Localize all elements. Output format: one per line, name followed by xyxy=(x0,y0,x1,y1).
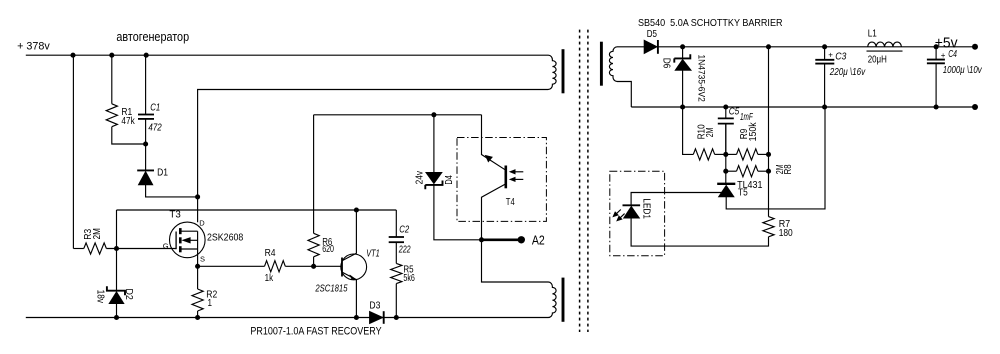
wire T4 collector xyxy=(482,115,506,170)
svg-text:D6: D6 xyxy=(660,58,671,69)
node top rail junction 2 xyxy=(109,53,114,58)
wire R9 left lead xyxy=(726,153,737,155)
svg-text:C5: C5 xyxy=(729,107,740,118)
node C3 top junction xyxy=(822,44,827,49)
wire R8 right lead xyxy=(758,170,769,172)
transistor VT1 base bar xyxy=(341,258,343,277)
svg-text:2SC1815: 2SC1815 xyxy=(315,284,348,295)
wire R7 top lead xyxy=(768,171,770,216)
capacitor C3 xyxy=(815,59,834,61)
wire R4 to base xyxy=(285,265,340,267)
svg-text:18v: 18v xyxy=(95,290,106,304)
resistor R1 xyxy=(106,104,117,127)
svg-text:SB540 5.0A SCHOTTKY BARRIER: SB540 5.0A SCHOTTKY BARRIER xyxy=(638,18,783,29)
svg-text:S: S xyxy=(200,254,205,263)
node R9 right junction xyxy=(766,152,771,157)
transistor T4 body bar xyxy=(504,166,507,189)
wire divider column B xyxy=(768,154,770,171)
node R5-bottom junction xyxy=(394,315,399,320)
transistor VT1 emitter xyxy=(342,272,356,279)
svg-text:R8: R8 xyxy=(783,164,794,174)
svg-text:D2: D2 xyxy=(123,289,134,301)
svg-text:1000μ \10v: 1000μ \10v xyxy=(943,65,983,76)
wire D2 column upper xyxy=(116,210,118,249)
wire emitter to feedback winding xyxy=(482,240,547,282)
node column B top junction xyxy=(766,44,771,49)
svg-text:+ 378v: + 378v xyxy=(17,40,50,52)
wire C1 top lead xyxy=(145,55,147,114)
diode D4 zener 24v xyxy=(426,172,443,184)
node R8 right junction xyxy=(766,169,771,174)
node gate junction xyxy=(114,246,119,251)
wire R7 bottom lead xyxy=(631,218,768,246)
svg-text:2M: 2M xyxy=(92,228,103,239)
node D6 bottom junction xyxy=(680,104,685,109)
capacitor C4 xyxy=(927,59,945,61)
svg-text:D3: D3 xyxy=(369,301,380,312)
wire R10 left lead xyxy=(683,107,694,154)
transistor T3 source link xyxy=(182,231,198,266)
diode LED1 emission arrow 1 xyxy=(615,210,621,216)
svg-text:D1: D1 xyxy=(157,168,168,179)
svg-text:620: 620 xyxy=(322,244,334,255)
wire D1 bottom lead xyxy=(146,185,198,197)
optocoupler LED1 box xyxy=(610,171,665,255)
svg-text:PR1007-1.0A FAST RECOVERY: PR1007-1.0A FAST RECOVERY xyxy=(250,325,382,337)
resistor R8 xyxy=(737,166,758,177)
svg-text:C3: C3 xyxy=(835,52,846,63)
shunt regulator TL431 T5 xyxy=(717,183,735,185)
svg-text:T4: T4 xyxy=(506,197,515,208)
isolation barrier dashed line 2 xyxy=(587,30,589,332)
resistor R9 xyxy=(737,149,758,160)
wire C4 top lead xyxy=(935,47,937,60)
svg-text:180: 180 xyxy=(779,228,793,239)
svg-text:G: G xyxy=(163,241,169,250)
wire bottom rail xyxy=(26,317,546,319)
wire R2 top lead xyxy=(197,266,199,289)
svg-text:24v: 24v xyxy=(414,170,425,184)
svg-text:D4: D4 xyxy=(444,175,455,185)
wire R6 bottom lead xyxy=(313,257,315,267)
transformer feedback winding xyxy=(546,282,556,318)
svg-text:47k: 47k xyxy=(121,116,135,127)
svg-text:150k: 150k xyxy=(748,122,759,142)
wire source to R4 xyxy=(198,265,265,267)
wire R1 top lead xyxy=(111,55,113,104)
node R1-C1 junction xyxy=(143,141,148,146)
svg-text:D: D xyxy=(199,218,205,227)
wire gate xyxy=(106,248,176,250)
wire D4 bottom lead xyxy=(434,185,482,240)
diode D5 xyxy=(644,40,657,54)
node D6 top junction xyxy=(680,44,685,49)
capacitor C5 xyxy=(718,117,734,119)
wire C1 bottom lead xyxy=(145,119,147,144)
diode LED1 emission arrow 2 xyxy=(619,214,625,220)
node top rail junction 3 xyxy=(144,53,149,58)
wire bottom 0v rail xyxy=(631,106,975,108)
wire secondary top to D5 xyxy=(620,46,644,48)
transistor VT1 circle xyxy=(341,254,367,280)
wire C5 bottom lead xyxy=(725,124,727,155)
resistor R4 xyxy=(265,261,286,272)
svg-text:A2: A2 xyxy=(532,233,545,247)
wire D1 top lead xyxy=(145,144,147,170)
svg-text:D5: D5 xyxy=(647,29,657,40)
node VT1 collector junction xyxy=(354,207,359,212)
transistor T3 drain link xyxy=(182,230,198,232)
svg-text:L1: L1 xyxy=(868,28,877,39)
wire R5 bottom lead xyxy=(395,284,397,318)
diode D1 xyxy=(137,169,154,171)
wire left rail to R3 xyxy=(72,55,74,248)
wire R1 bottom lead xyxy=(112,127,146,144)
diode LED1 xyxy=(623,204,641,206)
wire D6 top lead xyxy=(682,47,684,59)
wire divider column xyxy=(725,124,727,184)
resistor R2 xyxy=(192,289,203,311)
wire D2 bottom lead xyxy=(116,304,118,318)
transformer core bar right xyxy=(600,42,603,86)
svg-text:222: 222 xyxy=(398,245,411,256)
wire opto feed y115 xyxy=(314,114,482,116)
node divider junction A xyxy=(723,152,728,157)
wire C2-R5 link xyxy=(395,242,397,263)
svg-text:1N4735-6V2: 1N4735-6V2 xyxy=(696,55,707,102)
transistor T3 body circle xyxy=(170,222,206,258)
node top rail junction 1 xyxy=(70,53,75,58)
wire C3 top lead xyxy=(824,47,826,60)
svg-text:220μ \16v: 220μ \16v xyxy=(829,67,866,78)
node T4 emitter junction xyxy=(479,237,484,242)
wire R8 left lead xyxy=(726,170,737,172)
capacitor C2 xyxy=(389,236,404,238)
resistor R3 xyxy=(84,243,107,254)
node A2 terminal xyxy=(518,236,525,243)
wire VT1 collector xyxy=(342,210,356,261)
svg-text:+: + xyxy=(828,51,833,60)
transistor T3 body diode arrow xyxy=(184,239,198,241)
inductor L1 bar xyxy=(867,50,903,52)
svg-text:R4: R4 xyxy=(265,248,276,259)
wire +378v top rail xyxy=(26,54,546,56)
wire TL431 anode xyxy=(726,107,825,209)
wire C4 bottom lead xyxy=(935,63,937,107)
wire R10 right lead xyxy=(715,153,726,155)
isolation barrier dashed line 1 xyxy=(579,30,581,332)
wire top 5v rail xyxy=(658,46,975,48)
svg-text:T5: T5 xyxy=(738,187,748,198)
node VT1 emitter junction xyxy=(354,315,359,320)
node +5v terminal xyxy=(972,44,978,50)
transformer secondary winding xyxy=(609,47,631,107)
node R2-bottom junction xyxy=(195,315,200,320)
resistor R7 xyxy=(763,217,774,237)
svg-text:C2: C2 xyxy=(399,224,409,235)
svg-text:VT1: VT1 xyxy=(366,249,380,260)
svg-text:1: 1 xyxy=(208,298,213,309)
diode D3 xyxy=(369,311,383,324)
svg-text:472: 472 xyxy=(148,123,162,134)
wire D6 bottom lead xyxy=(682,70,684,107)
transformer core bar bottom-left xyxy=(562,278,565,322)
wire VT1 emitter lead xyxy=(355,280,357,318)
svg-text:1k: 1k xyxy=(265,273,274,284)
node R6-base junction xyxy=(311,264,316,269)
svg-text:2M: 2M xyxy=(705,127,716,137)
transistor T4 light arrow 1 xyxy=(512,171,524,173)
wire drain rail xyxy=(198,90,546,223)
node R8 left junction xyxy=(723,169,728,174)
transistor T3 gate bar xyxy=(175,232,177,250)
svg-text:T3: T3 xyxy=(169,209,181,220)
inductor L1 xyxy=(868,42,902,47)
svg-text:2SK2608: 2SK2608 xyxy=(207,233,244,244)
svg-text:1mF: 1mF xyxy=(740,112,753,123)
capacitor C1 xyxy=(138,114,154,116)
wire R3 left lead xyxy=(73,248,83,250)
wire D4 top lead xyxy=(433,115,435,173)
transistor T4 light arrow 2 xyxy=(512,178,524,180)
svg-text:20μH: 20μH xyxy=(868,55,887,66)
wire C5 top lead xyxy=(725,107,727,118)
node C5 top junction xyxy=(723,104,728,109)
node D2-bottom junction xyxy=(114,315,119,320)
svg-text:C1: C1 xyxy=(150,103,160,114)
diode D2 zener 18v xyxy=(107,286,125,295)
wire D2 top lead xyxy=(116,249,118,291)
node C4 bottom junction xyxy=(934,104,939,109)
wire R6 top lead xyxy=(313,115,315,234)
wire R2 bottom lead xyxy=(197,311,199,318)
resistor R6 xyxy=(308,233,319,256)
wire feedback y210 xyxy=(117,209,397,211)
wire C3 bottom lead xyxy=(824,64,826,107)
wire C2 top lead xyxy=(395,210,397,237)
node C4 top junction xyxy=(934,44,939,49)
transistor T3 channel segments xyxy=(179,228,182,234)
node D4 junction xyxy=(431,112,436,117)
transformer primary winding xyxy=(546,55,556,89)
svg-text:LED1: LED1 xyxy=(641,198,652,219)
node C3 bottom junction xyxy=(822,104,827,109)
wire A2 thick xyxy=(482,239,519,242)
wire TL431 ref xyxy=(631,193,721,206)
transformer core bar top-left xyxy=(562,49,565,93)
diode D6 zener xyxy=(674,54,690,62)
resistor R5 xyxy=(391,263,402,283)
wire R9 right lead xyxy=(758,153,769,155)
wire T4 emitter xyxy=(482,184,506,240)
resistor R10 xyxy=(693,149,714,160)
svg-text:5k6: 5k6 xyxy=(403,273,415,284)
node D1-drain junction xyxy=(195,194,200,199)
transistor T4 collector arrow xyxy=(485,155,492,162)
svg-text:C4: C4 xyxy=(948,49,957,60)
node 0v terminal xyxy=(972,104,978,110)
svg-text:автогенератор: автогенератор xyxy=(116,29,189,44)
optocoupler T4 box xyxy=(457,138,546,222)
node source junction xyxy=(195,264,200,269)
wire column B to 5v rail xyxy=(768,47,770,155)
